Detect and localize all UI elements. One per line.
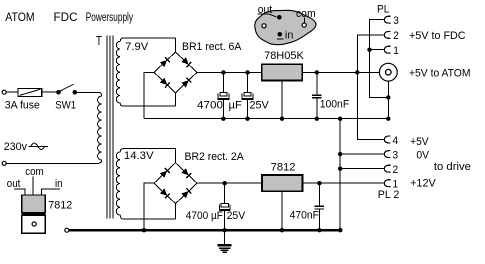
svg-text:SW1: SW1 xyxy=(55,100,76,112)
svg-text:3A fuse: 3A fuse xyxy=(5,100,40,112)
svg-text:14.3V: 14.3V xyxy=(124,150,154,162)
svg-text:out: out xyxy=(7,178,21,190)
svg-text:Powersupply: Powersupply xyxy=(86,12,133,24)
svg-text:out: out xyxy=(258,4,272,16)
svg-text:230v: 230v xyxy=(4,141,28,153)
svg-text:0V: 0V xyxy=(416,150,429,162)
svg-text:1: 1 xyxy=(393,45,399,57)
svg-text:4700: 4700 xyxy=(197,100,223,112)
svg-text:+5V to FDC: +5V to FDC xyxy=(409,30,466,42)
svg-text:7812: 7812 xyxy=(271,162,296,174)
svg-text:470nF: 470nF xyxy=(290,210,320,222)
svg-text:to drive: to drive xyxy=(434,161,471,173)
svg-text:PL 2: PL 2 xyxy=(378,189,400,201)
svg-text:100nF: 100nF xyxy=(320,99,350,111)
svg-text:+5V to ATOM: +5V to ATOM xyxy=(409,67,471,79)
svg-text:+5V: +5V xyxy=(410,136,429,148)
svg-text:ATOM: ATOM xyxy=(5,12,34,24)
svg-text:25V: 25V xyxy=(250,100,270,112)
svg-text:2: 2 xyxy=(393,30,399,42)
svg-text:7.9V: 7.9V xyxy=(125,41,149,53)
svg-text:4: 4 xyxy=(393,135,399,147)
svg-text:+12V: +12V xyxy=(410,178,436,190)
svg-text:7812: 7812 xyxy=(48,200,72,212)
svg-text:PL: PL xyxy=(377,3,389,15)
svg-text:3: 3 xyxy=(393,15,399,27)
svg-text:78H05K: 78H05K xyxy=(264,50,304,62)
svg-text:com: com xyxy=(25,166,44,178)
svg-text:com: com xyxy=(296,8,316,20)
svg-text:2: 2 xyxy=(393,164,399,176)
svg-text:µF: µF xyxy=(229,100,243,112)
svg-text:BR2 rect. 2A: BR2 rect. 2A xyxy=(185,151,245,163)
svg-text:BR1 rect. 6A: BR1 rect. 6A xyxy=(182,41,242,53)
svg-text:25V: 25V xyxy=(227,210,246,222)
svg-text:4700 µF: 4700 µF xyxy=(186,210,223,222)
svg-text:FDC: FDC xyxy=(54,12,78,24)
svg-text:in: in xyxy=(55,178,63,190)
svg-text:3: 3 xyxy=(393,149,399,161)
svg-text:T: T xyxy=(96,34,102,48)
svg-text:in: in xyxy=(285,29,294,41)
